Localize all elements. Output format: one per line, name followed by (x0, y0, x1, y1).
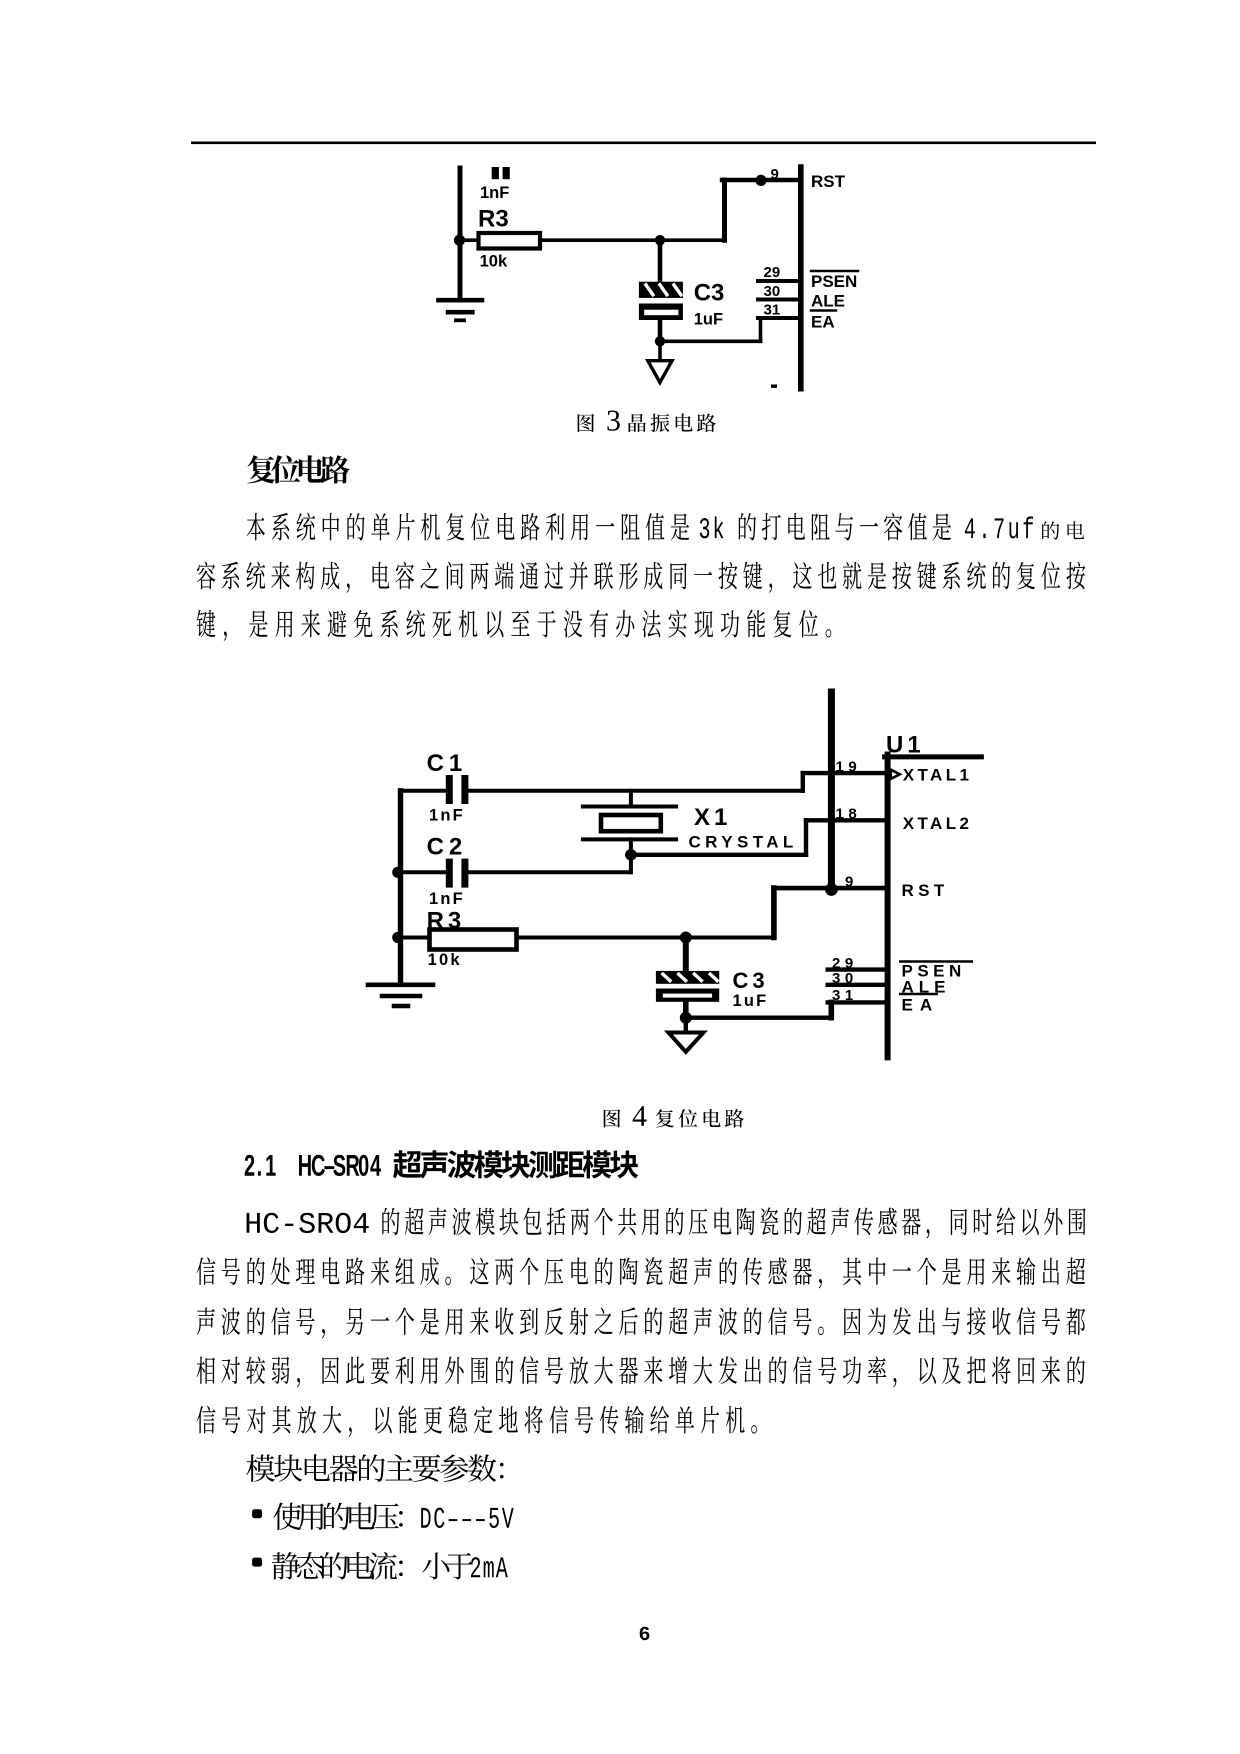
junction dot on pin 9 wire (755, 175, 766, 186)
wire: thick vertical net (RST rail) (828, 692, 835, 890)
IC U1 top border (885, 754, 982, 759)
svg-text:1nF: 1nF (429, 890, 465, 908)
junction dot left rail / R3 (454, 235, 465, 246)
svg-text:30: 30 (764, 283, 781, 300)
bullet dot 2 (252, 1558, 262, 1567)
svg-text:1uF: 1uF (733, 992, 769, 1010)
resistor R3 body (schematic 2) (430, 930, 517, 950)
wire: EA riser (schematic 2) (828, 1002, 834, 1017)
ground symbol (schematic 1) (439, 300, 483, 320)
crystal X1 bottom plate (583, 837, 676, 841)
wire: node down to C3 (658, 240, 663, 282)
wire: left rail to C1 (401, 789, 446, 793)
capacitor C3 lower plate (schematic 2) (656, 989, 719, 1002)
page number 6 (640, 1627, 650, 1641)
paragraph 2 line 1 (247, 1213, 260, 1233)
svg-text:1uF: 1uF (694, 311, 723, 329)
wire: stub down to ground arrow (658, 341, 662, 376)
wire: pin 19 stub (803, 771, 885, 775)
crystal X1 top plate (583, 805, 676, 809)
wire: stub into ground arrow (schematic 2) (684, 1018, 688, 1046)
svg-text:EA: EA (902, 995, 940, 1014)
wire: RST riser up to pin 9 (771, 888, 777, 937)
wire: R3 to C3 node to riser (540, 238, 725, 242)
paragraph 2 line 3 (197, 1307, 215, 1335)
wire: C3 top stub (schematic 2) (683, 938, 689, 971)
paragraph 1 line 1 (246, 513, 264, 541)
IC U1 left border (885, 755, 891, 1058)
bullet 2: 静态的电流：小于 2mA (272, 1552, 300, 1579)
wire: pin 9 stub (774, 886, 885, 891)
wire: schematic1 left vertical rail (458, 168, 463, 298)
capacitor C3 polarized plate (hatched) (639, 282, 683, 298)
pin stub 29 (schematic 2) (828, 967, 885, 971)
wire: C3 bottom stub (schematic 2) (683, 1002, 689, 1018)
caption: 图 3 晶振电路 (578, 414, 595, 432)
svg-text:18: 18 (836, 806, 862, 823)
svg-text:C3: C3 (694, 280, 725, 307)
junction dot left rail / C2 (392, 867, 403, 878)
wire: left vertical rail (schematic 2) (398, 791, 403, 984)
svg-text:ALE: ALE (811, 292, 845, 311)
pin stub 31 (758, 316, 800, 320)
caption: 图 4 复位电路 (604, 1109, 621, 1127)
svg-text:9: 9 (845, 874, 853, 891)
svg-text:X1: X1 (694, 804, 731, 831)
wire: riser from C1 wire to pin 19 (801, 773, 805, 791)
pin XTAL1 input arrow (891, 770, 900, 779)
wire: riser up to pin 9 level (722, 180, 727, 240)
paragraph 2 line 5 (197, 1406, 216, 1434)
svg-text:9: 9 (771, 166, 779, 183)
svg-text:PSEN: PSEN (811, 272, 857, 291)
svg-text:31: 31 (764, 302, 781, 319)
wire: left rail to C2 (401, 870, 446, 874)
stray mark at IC bottom (771, 385, 777, 388)
ground arrow (schematic 2) (668, 1033, 703, 1052)
junction dot R3 wire / C3 (680, 932, 692, 944)
svg-text:10k: 10k (428, 951, 462, 969)
svg-text:29: 29 (764, 264, 781, 281)
svg-text:1nF: 1nF (480, 184, 509, 202)
wire: left rail to R3 (458, 238, 478, 242)
resistor R3 body (479, 233, 541, 249)
heading: 2.1 HC-SR04 超声波模块测距模块 (245, 1155, 255, 1176)
header rule (191, 142, 1096, 145)
junction dot RST rail / pin 9 (825, 883, 838, 896)
svg-text:R3: R3 (478, 205, 509, 232)
svg-text:31: 31 (832, 987, 858, 1004)
wire: C2 to X1 stub (468, 870, 631, 874)
wire: C3 bottom stub (658, 319, 663, 341)
junction dot R3/C3 node (655, 235, 665, 245)
capacitor C2 plates (446, 859, 469, 888)
heading: 复位电路 (247, 455, 275, 483)
pin stub 29 (758, 279, 800, 283)
bullet dot 1 (252, 1509, 262, 1518)
pin stub 30 (schematic 2) (828, 983, 885, 987)
wire: riser up to pin 18 stub (804, 820, 808, 855)
ground symbol (schematic 2) (368, 985, 433, 1006)
wire: X1 bottom stub down to C2 wire (629, 839, 633, 872)
capacitor C3 lower plate (639, 304, 683, 321)
svg-text:EA: EA (811, 312, 835, 331)
junction dot below C3 (655, 336, 665, 346)
wire: left rail to R3 (396, 936, 430, 940)
schematic 2: reset circuit (368, 692, 981, 1057)
paragraph 1 line 3 (197, 610, 216, 638)
capacitor C3 polarized plate (schematic 2) (656, 971, 719, 984)
pin stub 31 (schematic 2) (828, 1000, 885, 1004)
junction dot below C3 (schematic 2) (680, 1012, 692, 1024)
svg-text:C3: C3 (733, 968, 769, 993)
wire: C3 node to EA riser (schematic 2) (686, 1016, 832, 1020)
wire: pin 18 horizontal from X1 (631, 853, 806, 857)
svg-text:XTAL1: XTAL1 (903, 766, 973, 785)
svg-text:30: 30 (832, 970, 858, 987)
bullet 1: 使用的电压：DC---5V (273, 1503, 301, 1530)
svg-text:XTAL2: XTAL2 (903, 814, 973, 833)
IC left border (schematic 1) (798, 167, 804, 389)
junction dot X1/pin18 wire (625, 849, 637, 861)
wire: C3 node right to EA riser (660, 339, 761, 343)
wire: pin 18 stub (806, 818, 885, 822)
svg-text:C1: C1 (427, 750, 468, 777)
svg-text:10k: 10k (480, 252, 508, 270)
paragraph 2 line 4 (197, 1357, 215, 1384)
junction dot left rail / R3 (392, 932, 403, 943)
wire: R3 to RST riser (517, 936, 774, 940)
wire: riser up to pin 31 stub (759, 318, 763, 341)
svg-text:1nF: 1nF (429, 806, 465, 824)
pin stub 30 (758, 298, 800, 302)
capacitor C1 plates (446, 775, 469, 804)
svg-text:RST: RST (811, 172, 846, 191)
svg-text:19: 19 (836, 759, 862, 776)
wire: stub C1 wire to X1 top (629, 791, 633, 807)
paragraph 1 line 2 (197, 562, 216, 590)
svg-text:C2: C2 (427, 834, 468, 861)
wire: C1 to pin 19 riser (468, 789, 802, 793)
schematic 1: crystal/reset detail (439, 166, 859, 389)
paragraph 2 line 2 (197, 1257, 216, 1285)
svg-text:CRYSTAL: CRYSTAL (689, 833, 798, 852)
crystal X1 body (601, 815, 661, 831)
wire: pin 9 horizontal into IC (722, 178, 800, 182)
line: 模块电器的主要参数： (246, 1454, 275, 1481)
svg-text:RST: RST (902, 881, 949, 900)
capacitor C? cropped plates (top of page) (492, 167, 510, 179)
ground arrow under C3 (648, 361, 672, 383)
